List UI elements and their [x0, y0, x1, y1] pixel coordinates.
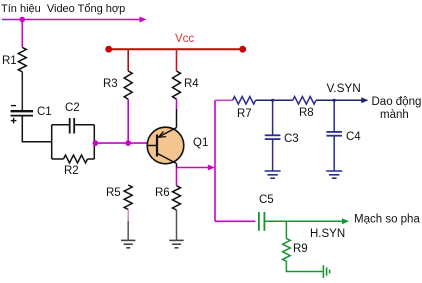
arrowhead output: [208, 165, 215, 171]
wire: C3 top lead: [272, 100, 274, 135]
wire: loop left side: [51, 125, 53, 159]
capacitor C5: [259, 212, 265, 231]
resistor R7: [233, 97, 256, 105]
wire: junction to R9: [285, 221, 287, 238]
svg-text:R1: R1: [2, 55, 17, 67]
svg-text:R8: R8: [299, 107, 314, 119]
wire: base wire to Q1: [95, 142, 147, 144]
svg-text:C3: C3: [284, 133, 299, 145]
svg-text:V.SYN: V.SYN: [327, 81, 361, 95]
wire: V.SYN output line: [335, 99, 363, 101]
wire: R9 to side ground: [286, 261, 322, 271]
arrowhead Mach so pha: [342, 218, 349, 224]
svg-text:Mạch so pha: Mạch so pha: [354, 214, 420, 226]
node: Vcc left dot: [105, 46, 112, 53]
wire: C1 to loop: [22, 116, 51, 142]
wire: loop bottom edge right: [88, 158, 95, 160]
wire: Q1 to R6: [176, 168, 178, 186]
resistor R4: [173, 71, 181, 99]
wire: C3 to ground: [272, 139, 274, 171]
wire: C4 to ground: [333, 136, 335, 171]
svg-text:C5: C5: [259, 194, 274, 206]
resistor R8: [293, 97, 316, 105]
svg-text:H.SYN: H.SYN: [310, 228, 345, 240]
capacitor C3: [265, 135, 281, 139]
capacitor C1: [11, 106, 34, 124]
ground C4: [326, 171, 342, 178]
svg-text:R9: R9: [293, 243, 308, 255]
svg-text:Vcc: Vcc: [175, 33, 194, 45]
transistor Q1: [147, 109, 184, 168]
wire: loop bottom edge left: [52, 158, 64, 160]
wire: Vcc to R3: [127, 49, 129, 71]
wire: net corner to R7: [215, 99, 233, 101]
wire: loop top edge left of C2: [52, 124, 69, 126]
node: base junction dot: [125, 140, 131, 146]
wire: input signal line: [2, 19, 141, 21]
wire: R5 to ground: [127, 221, 129, 240]
wire: emitter output: [177, 167, 210, 169]
svg-text:Q1: Q1: [193, 137, 208, 149]
resistor R6: [173, 186, 181, 210]
wire: C4 top lead: [333, 100, 335, 131]
capacitor C2: [70, 118, 75, 134]
svg-text:R7: R7: [237, 108, 252, 120]
wire: C5 to H.SYN arrow: [264, 220, 343, 222]
svg-text:Tín hiệu Video Tổng hợp: Tín hiệu Video Tổng hợp: [1, 3, 125, 15]
ground R5: [121, 240, 135, 247]
svg-text:mành: mành: [380, 109, 409, 121]
wire: R5 magenta stub: [127, 210, 129, 222]
arrowhead input: [140, 17, 147, 23]
wire: R8 to C4 node: [316, 99, 334, 101]
svg-text:Dao động: Dao động: [372, 96, 422, 108]
wire: node to R8: [273, 99, 293, 101]
wire: Vcc to R4: [176, 49, 178, 71]
resistor R5: [124, 185, 132, 210]
node: input junction dot: [20, 17, 26, 23]
resistor R9: [283, 239, 291, 262]
svg-text:C4: C4: [346, 131, 361, 143]
wire: R1 to C1: [21, 72, 23, 111]
svg-text:C1: C1: [37, 106, 52, 118]
svg-text:R4: R4: [184, 78, 199, 90]
wire: loop top edge right of C2: [75, 124, 94, 126]
power rail Vcc: [109, 48, 243, 50]
node: Vcc right dot: [239, 46, 246, 53]
node C3 junction: [271, 99, 274, 102]
wire: R3 to base junction: [127, 99, 129, 143]
wire: net to C5: [215, 220, 255, 222]
node C4 junction: [333, 99, 336, 102]
ground R6: [169, 240, 183, 247]
wire: R7 to C3 node: [256, 99, 273, 101]
resistor R2: [64, 155, 88, 163]
svg-text:R6: R6: [155, 187, 170, 199]
resistor R1: [18, 47, 26, 71]
svg-text:R3: R3: [103, 78, 118, 90]
wire: input to R1: [21, 20, 23, 48]
svg-text:C2: C2: [65, 102, 80, 114]
ground R9 sideways: [323, 265, 329, 278]
svg-text:R5: R5: [106, 187, 121, 199]
arrowhead V.SYN: [361, 97, 368, 103]
wire: output vertical net: [214, 100, 216, 221]
resistor R3: [124, 71, 132, 99]
node: loop output junction dot: [93, 140, 99, 146]
wire: loop right side: [93, 125, 95, 159]
wire: R4 to Q1 emitter stub: [176, 99, 178, 109]
wire: R6 to ground: [176, 210, 178, 240]
ground C3: [265, 171, 281, 178]
svg-text:R2: R2: [64, 165, 79, 177]
capacitor C4: [326, 132, 342, 136]
